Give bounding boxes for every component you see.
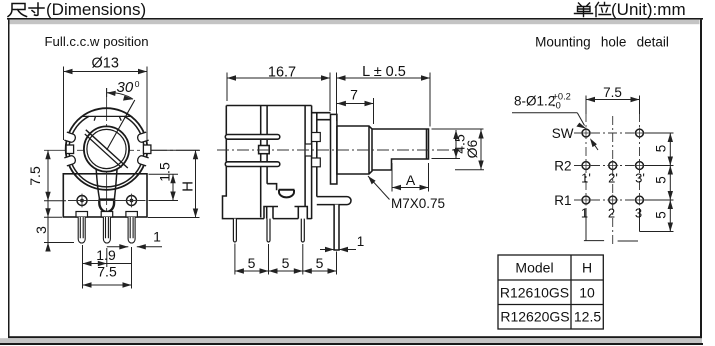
side view plate center detail — [305, 144, 312, 156]
svg-text:1: 1 — [153, 229, 161, 245]
frame bottom shadow bar — [0, 338, 702, 343]
title: 单位 (CJK strokes) — [575, 3, 611, 17]
svg-text:1.9: 1.9 — [96, 247, 116, 263]
svg-text:1': 1' — [581, 171, 591, 186]
frame bottom line — [8, 336, 701, 338]
svg-text:1: 1 — [357, 234, 365, 249]
frame bottom dark line — [0, 343, 703, 345]
svg-text:1: 1 — [581, 206, 588, 221]
model table grid — [498, 255, 603, 329]
dimension 3 left vertical — [33, 201, 74, 252]
frame top shadow bar — [9, 20, 700, 25]
side view front plate lines — [305, 106, 330, 220]
front view key box left — [66, 145, 74, 154]
side view pin 2 — [267, 219, 270, 242]
front view pin3 — [126, 212, 137, 244]
side view mounting foot — [317, 197, 351, 205]
dimension 5 5 5 pin pitch — [235, 244, 337, 275]
svg-text:7.5: 7.5 — [27, 166, 43, 186]
svg-text:7.5: 7.5 — [603, 85, 622, 100]
front view center crosshair vertical — [106, 88, 108, 220]
side view terminal bar 2 — [225, 162, 279, 167]
mount hole R1-3 — [634, 195, 645, 206]
front view base plate — [63, 174, 147, 217]
side view shaft — [372, 129, 429, 170]
svg-text:SW: SW — [552, 126, 574, 141]
svg-text:5: 5 — [316, 255, 324, 271]
dimension 7.5 left vertical — [27, 150, 66, 200]
svg-text:(Dimensions): (Dimensions) — [46, 0, 146, 19]
side view wiper band — [261, 106, 277, 218]
front view chord line — [79, 116, 135, 120]
side view pin 1 — [233, 219, 236, 242]
front view outer circle — [66, 108, 148, 190]
dimension 7.5 bottom — [83, 245, 132, 289]
side view bracket tab upper — [312, 133, 321, 142]
dimension 1.9 — [83, 247, 132, 267]
front view rivet right — [127, 194, 137, 208]
dimension 4.5 shaft flat — [432, 129, 484, 159]
dimension 30 degrees — [107, 79, 140, 101]
svg-text:R2: R2 — [554, 159, 571, 174]
side view body bottom cup — [279, 190, 295, 198]
frame left border — [8, 20, 10, 337]
front view notch slot upper-left — [64, 132, 76, 143]
svg-text:-0: -0 — [553, 101, 561, 111]
frame right border — [700, 20, 702, 343]
mount hole SW-1 — [581, 128, 592, 139]
svg-text:Ø6: Ø6 — [464, 139, 480, 158]
svg-text:R12620GS: R12620GS — [500, 309, 569, 325]
svg-text:8-Ø1.2: 8-Ø1.2 — [514, 94, 555, 109]
svg-text:2': 2' — [608, 171, 618, 186]
front view bottom cup — [99, 200, 116, 212]
label 8-Ø1.2 +0.2/-0 with leader — [512, 92, 598, 151]
frame top line — [7, 18, 703, 20]
dimension A flat length — [392, 163, 429, 192]
front view pin1 — [76, 212, 88, 244]
side view band center detail — [259, 146, 270, 154]
title: 尺寸 (CJK strokes) — [8, 3, 44, 17]
svg-text:7.5: 7.5 — [97, 264, 117, 280]
side view bracket tab lower — [312, 158, 321, 167]
front view inner circle 2 — [87, 129, 126, 168]
svg-text:R1: R1 — [554, 193, 571, 208]
svg-text:3: 3 — [33, 226, 49, 234]
front view slot line 2 — [85, 134, 122, 168]
dimension 1.5 vertical — [149, 162, 179, 200]
label M7X0.75 with leader — [368, 176, 445, 211]
front view mid circle arc — [69, 116, 144, 187]
dimension 7 bushing — [337, 87, 374, 125]
front view rivet axis line — [68, 200, 146, 202]
front view center crosshair horizontal — [44, 149, 200, 151]
svg-text:Model: Model — [515, 260, 553, 276]
svg-text:2: 2 — [608, 206, 615, 221]
front view inner ring — [84, 126, 129, 171]
svg-text:5: 5 — [248, 255, 256, 271]
mount centerlines vertical dash-dot — [574, 113, 645, 246]
front view notch slot lower-left — [64, 155, 76, 166]
mount hole R1-1 — [581, 195, 592, 206]
svg-text:(Unit):mm: (Unit):mm — [611, 0, 686, 19]
svg-text:Mounting hole detail: Mounting hole detail — [535, 35, 669, 50]
side view pin 3 — [301, 219, 304, 242]
side view threaded bushing — [337, 126, 372, 174]
dimension 1 leg width — [320, 234, 364, 252]
side view mounting leg — [334, 205, 339, 250]
svg-text:Ø13: Ø13 — [92, 56, 119, 72]
svg-text:5: 5 — [654, 211, 669, 219]
front view shaft cone right — [114, 170, 117, 201]
svg-text:3: 3 — [635, 206, 642, 221]
svg-text:M7X0.75: M7X0.75 — [391, 196, 445, 211]
svg-text:H: H — [582, 260, 592, 276]
dimension Ø13 — [64, 56, 148, 141]
svg-text:3': 3' — [635, 171, 645, 186]
dimension 1 pin width — [107, 229, 162, 250]
side view collar — [331, 114, 337, 184]
mount hole R2-1 — [581, 160, 592, 171]
svg-text:0: 0 — [135, 79, 140, 89]
mount hole SW-3 — [634, 128, 645, 139]
svg-text:5: 5 — [654, 176, 669, 184]
svg-text:A: A — [406, 172, 416, 188]
svg-text:R12610GS: R12610GS — [500, 285, 569, 301]
dimension 16.7 — [227, 65, 330, 112]
front view shaft cone left — [96, 170, 100, 201]
svg-text:12.5: 12.5 — [574, 309, 601, 325]
side view main body outline — [223, 106, 312, 219]
svg-text:7: 7 — [350, 87, 358, 103]
dimension Ø6 shaft — [455, 130, 484, 170]
front view 30deg indicator line — [107, 100, 135, 150]
side view center axis dash-dot line — [217, 149, 462, 151]
front view notch slot lower-right — [137, 155, 149, 166]
dimension L +/- 0.5 — [337, 64, 431, 127]
front view notch slot upper-right — [137, 132, 149, 143]
dimension 5 5 5 mount column — [654, 133, 674, 232]
front view key box right — [143, 145, 151, 154]
mount hole R2-2 — [607, 160, 618, 171]
svg-text:5: 5 — [654, 145, 669, 153]
front view slot line 1 — [86, 130, 128, 168]
mount solid extension lines — [584, 96, 674, 242]
front view rivet left — [77, 194, 87, 208]
front view pin2 — [101, 212, 113, 244]
svg-text:H: H — [180, 181, 197, 192]
svg-text:Full.c.c.w position: Full.c.c.w position — [45, 34, 149, 49]
side view terminal bar 1 — [225, 135, 279, 140]
svg-text:1.5: 1.5 — [157, 162, 173, 182]
svg-text:5: 5 — [282, 255, 290, 271]
mount hole R1-2 — [607, 195, 618, 206]
dimension H vertical — [148, 150, 200, 217]
dimension 7.5 mount — [586, 85, 640, 102]
svg-text:10: 10 — [579, 285, 595, 301]
mount hole R2-3 — [634, 160, 645, 171]
